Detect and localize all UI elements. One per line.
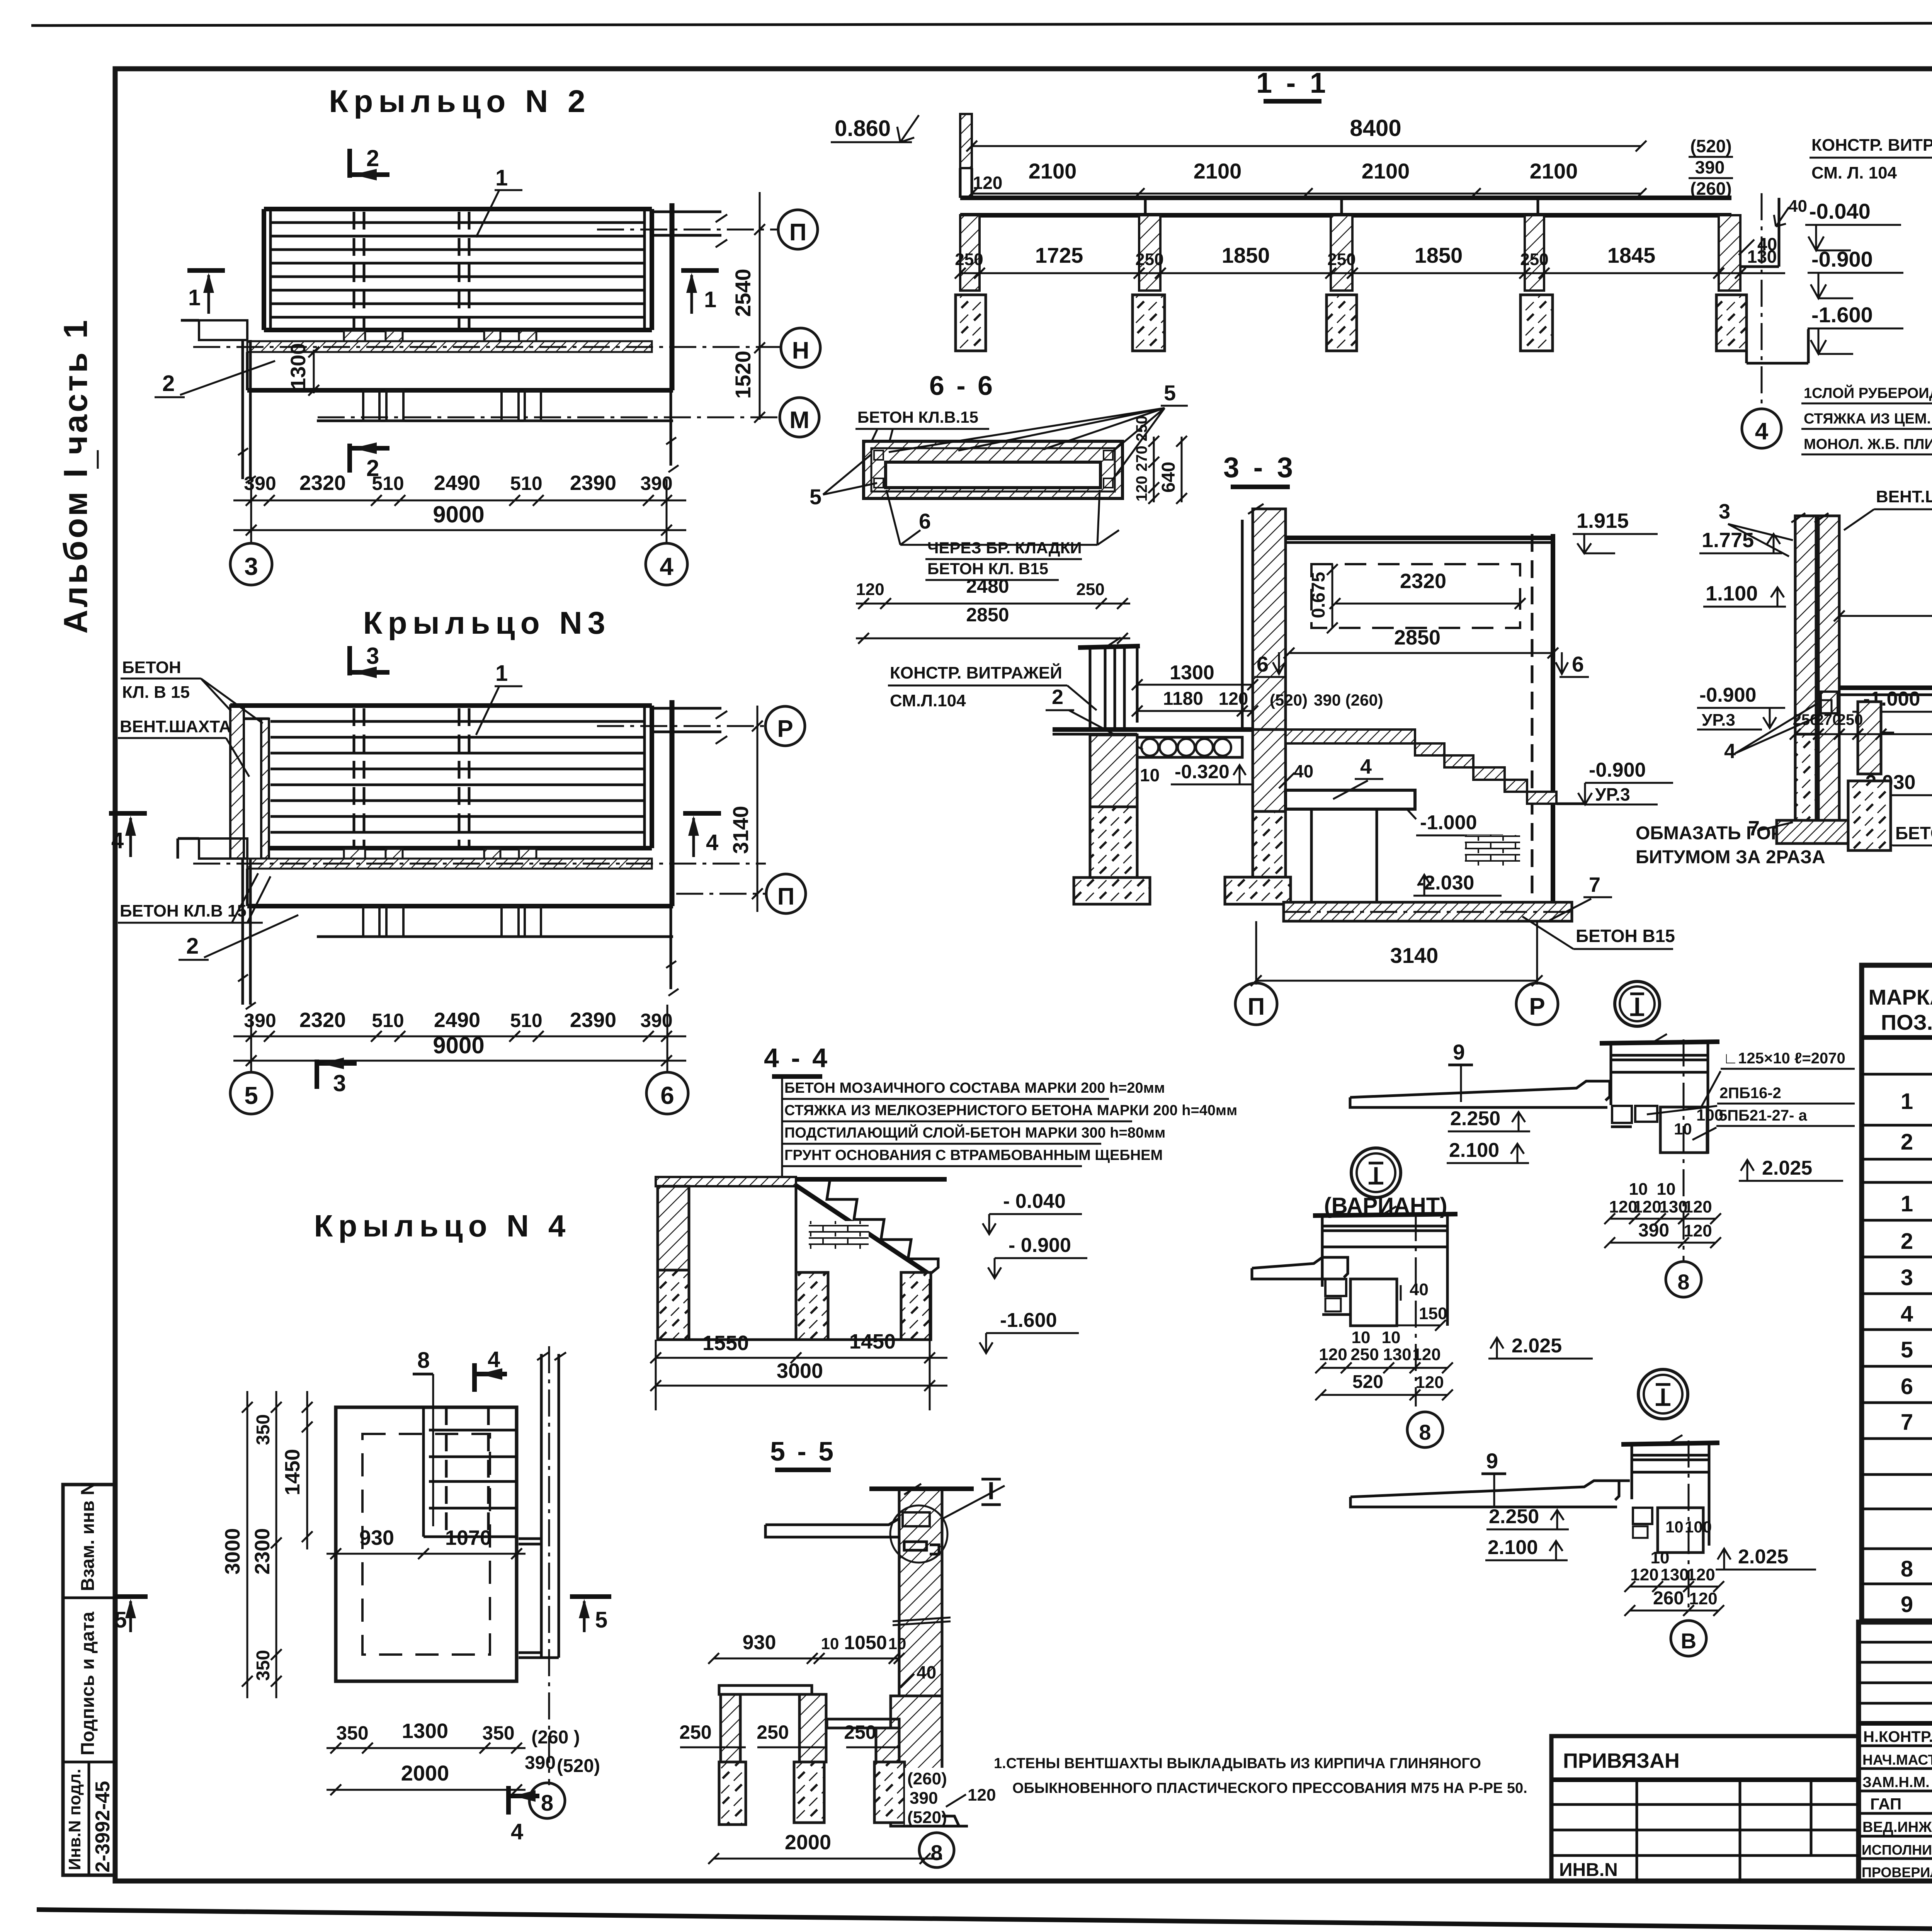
svg-text:4: 4: [488, 1347, 500, 1372]
svg-text:1520: 1520: [731, 350, 755, 399]
svg-text:10: 10: [1651, 1548, 1670, 1567]
svg-text:ЗАМ.Н.М.: ЗАМ.Н.М.: [1862, 1774, 1930, 1791]
right wall: [1551, 534, 1555, 902]
svg-text:2.250: 2.250: [1450, 1107, 1500, 1130]
svg-text:4: 4: [111, 828, 124, 853]
svg-text:- 0.040: - 0.040: [1003, 1190, 1066, 1213]
bottom slab: [1284, 902, 1572, 921]
spec table frame: [1862, 965, 1932, 1621]
svg-text:120: 120: [1687, 1565, 1715, 1584]
svg-text:350: 350: [253, 1414, 274, 1445]
svg-text:5: 5: [244, 1082, 258, 1109]
svg-text:НАЧ.МАСТ.: НАЧ.МАСТ.: [1862, 1752, 1932, 1768]
svg-text:(260 ): (260 ): [531, 1727, 580, 1748]
piers: [960, 215, 980, 291]
svg-text:4: 4: [1360, 755, 1372, 778]
shaft left wall: [1253, 509, 1286, 730]
landing slab: [246, 869, 249, 906]
central wall: [899, 1489, 942, 1696]
left wall lines: [241, 340, 244, 479]
svg-text:510: 510: [372, 473, 404, 494]
svg-text:1300: 1300: [402, 1719, 448, 1743]
svg-text:Н: Н: [792, 337, 810, 364]
title block outer: [1859, 1622, 1932, 1881]
svg-text:2.100: 2.100: [1488, 1536, 1538, 1559]
axis П circle (plan3): [766, 874, 806, 913]
svg-text:ИНВ.N: ИНВ.N: [1559, 1860, 1618, 1880]
svg-text:3: 3: [244, 553, 258, 580]
svg-text:390: 390: [1638, 1220, 1669, 1241]
svg-text:(520): (520): [1270, 691, 1308, 709]
axis circle 3: [230, 543, 272, 585]
dashed joint lines in treads: [353, 212, 355, 330]
svg-text:40: 40: [917, 1662, 936, 1682]
svg-text:ПОДСТИЛАЮЩИЙ СЛОЙ-БЕТОН МАРКИ: ПОДСТИЛАЮЩИЙ СЛОЙ-БЕТОН МАРКИ 300 h=80мм: [784, 1124, 1165, 1141]
svg-text:Р: Р: [777, 716, 793, 742]
svg-text:10: 10: [1382, 1328, 1401, 1347]
svg-text:10: 10: [1140, 765, 1160, 785]
svg-text:1300: 1300: [1170, 662, 1214, 684]
svg-text:120: 120: [968, 1786, 996, 1804]
svg-text:БЕТОН В15: БЕТОН В15: [1576, 926, 1675, 946]
wall assembly: [1321, 1214, 1324, 1287]
svg-text:2390: 2390: [570, 471, 616, 495]
svg-text:ПРИВЯЗАН: ПРИВЯЗАН: [1563, 1749, 1680, 1772]
svg-text:-0.900: -0.900: [1699, 684, 1756, 706]
svg-text:10: 10: [1629, 1180, 1648, 1199]
left entry step: [199, 838, 247, 859]
piers: [1858, 702, 1881, 774]
svg-text:БЕТОН КЛ.В 15: БЕТОН КЛ.В 15: [120, 901, 247, 920]
axis P circle: [765, 706, 805, 746]
svg-text:6: 6: [1901, 1374, 1913, 1399]
svg-text:- 0.900: - 0.900: [1009, 1234, 1071, 1257]
stair tread block: [269, 703, 652, 708]
svg-text:510: 510: [510, 1010, 542, 1031]
inner dashed contour: [362, 1434, 490, 1655]
blocks: [1633, 1508, 1652, 1524]
svg-text:3 - 3: 3 - 3: [1223, 451, 1296, 483]
svg-text:4: 4: [511, 1819, 523, 1844]
axis + circle 8: [1683, 1039, 1685, 1260]
svg-text:2.100: 2.100: [1449, 1139, 1499, 1162]
svg-text:УР.3: УР.3: [1702, 711, 1735, 730]
stair pocket: [422, 1407, 425, 1537]
dashed duct contour: [1311, 564, 1520, 628]
svg-text:2100: 2100: [1530, 159, 1578, 183]
svg-text:350: 350: [253, 1650, 274, 1681]
axis П circle: [1235, 983, 1277, 1025]
svg-text:2850: 2850: [1394, 626, 1440, 649]
6-6 box (vent duct section): [864, 441, 1122, 498]
left small rows: [1859, 1641, 1932, 1644]
svg-text:250: 250: [1837, 711, 1863, 728]
svg-text:1050: 1050: [844, 1632, 887, 1653]
vertical dim 2540/1520: [759, 192, 761, 420]
hollow core slab: [1137, 737, 1242, 757]
dim 2100 x4: [972, 193, 1641, 195]
axis circle 5: [230, 1072, 272, 1114]
svg-text:390: 390: [244, 473, 276, 494]
svg-text:КОНСТР. ВИТРАЖЕЙ: КОНСТР. ВИТРАЖЕЙ: [1811, 135, 1932, 155]
axis П line: [193, 863, 766, 865]
svg-text:1: 1: [495, 165, 508, 190]
landing slab (pos.2): [246, 352, 249, 390]
bottom plate: [1777, 820, 1878, 844]
svg-text:БЕТОН: БЕТОН: [122, 658, 181, 677]
svg-text:2320: 2320: [299, 471, 346, 495]
left street structure: [719, 1685, 812, 1694]
svg-text:1.775: 1.775: [1702, 529, 1754, 552]
row lines: [1862, 1073, 1932, 1076]
section mark 1 (left): [187, 268, 225, 273]
svg-text:3: 3: [1901, 1265, 1913, 1290]
svg-text:120: 120: [1219, 689, 1248, 709]
svg-text:5: 5: [810, 485, 821, 509]
brick patch: [1465, 835, 1520, 866]
svg-text:930: 930: [359, 1526, 394, 1549]
svg-text:ОБЫКНОВЕННОГО ПЛАСТИЧЕСКОГО ПР: ОБЫКНОВЕННОГО ПЛАСТИЧЕСКОГО ПРЕССОВАНИЯ …: [1012, 1780, 1527, 1796]
svg-text:250: 250: [1350, 1345, 1379, 1364]
dimension row: [233, 1036, 686, 1037]
svg-text:(260): (260): [907, 1769, 947, 1788]
shaft walls: [1795, 516, 1816, 734]
svg-text:1850: 1850: [1222, 243, 1270, 267]
axis + circle В: [1688, 1440, 1690, 1614]
svg-text:∟125×10 ℓ=2070: ∟125×10 ℓ=2070: [1723, 1050, 1845, 1067]
blocks: [1325, 1279, 1346, 1296]
cantilever slab: [765, 1519, 899, 1537]
svg-text:250: 250: [1327, 250, 1355, 269]
axis M circle: [780, 398, 819, 437]
svg-text:Крыльцо N 2: Крыльцо N 2: [329, 84, 591, 119]
svg-text:9: 9: [1486, 1449, 1498, 1473]
svg-text:4: 4: [1901, 1301, 1913, 1327]
paper top edge: [31, 22, 1932, 26]
plan outer boundary: [336, 1407, 517, 1681]
svg-text:2: 2: [162, 371, 175, 396]
right wall and corner: [670, 700, 672, 989]
svg-text:120: 120: [856, 580, 884, 599]
svg-text:8: 8: [417, 1348, 430, 1373]
svg-text:1СЛОЙ РУБЕРОИДА НА БИТУМНОЙ МА: 1СЛОЙ РУБЕРОИДА НА БИТУМНОЙ МАСТИКЕ: [1804, 384, 1932, 401]
svg-text:4: 4: [706, 830, 718, 855]
svg-text:9: 9: [1901, 1592, 1913, 1617]
svg-text:1845: 1845: [1607, 243, 1656, 267]
svg-text:9000: 9000: [433, 1032, 484, 1058]
svg-text:1180: 1180: [1163, 689, 1203, 709]
dim row: [1795, 733, 1932, 735]
svg-text:2000: 2000: [401, 1761, 449, 1785]
svg-text:-1.600: -1.600: [1000, 1309, 1057, 1332]
svg-text:2300: 2300: [251, 1528, 274, 1575]
svg-text:ГАП: ГАП: [1870, 1795, 1901, 1813]
svg-text:390: 390: [640, 473, 672, 494]
axis П circle: [778, 210, 818, 249]
svg-text:2000: 2000: [785, 1831, 831, 1854]
svg-text:-0.900: -0.900: [1811, 247, 1873, 271]
vertical dim 3000: [247, 1391, 248, 1698]
svg-text:1.СТЕНЫ ВЕНТШАХТЫ ВЫКЛАДЫВАТЬ: 1.СТЕНЫ ВЕНТШАХТЫ ВЫКЛАДЫВАТЬ ИЗ КИРПИЧА…: [994, 1755, 1481, 1772]
svg-text:390: 390: [1695, 157, 1725, 177]
svg-text:2.250: 2.250: [1489, 1505, 1539, 1528]
dimension row 390/2320/510/2490/510/2390/390: [233, 500, 686, 502]
lower wall row with piers: [317, 420, 673, 422]
svg-text:М: М: [789, 407, 810, 434]
svg-text:3140: 3140: [728, 806, 753, 854]
left wall: [658, 1186, 689, 1270]
svg-text:250: 250: [844, 1721, 876, 1743]
svg-text:390 (260): 390 (260): [1314, 691, 1383, 709]
svg-text:3000: 3000: [777, 1359, 823, 1383]
svg-text:40: 40: [1788, 197, 1807, 216]
node circle I: [1615, 981, 1660, 1026]
section mark 3 (top): [347, 646, 352, 675]
axis Р circle: [1516, 983, 1558, 1025]
svg-text:П: П: [777, 883, 795, 910]
brick patch: [809, 1221, 869, 1249]
svg-text:КОНСТР. ВИТРАЖЕЙ: КОНСТР. ВИТРАЖЕЙ: [890, 663, 1062, 682]
svg-text:2540: 2540: [731, 269, 755, 317]
svg-text:СМ.Л.104: СМ.Л.104: [890, 691, 966, 710]
main slab: [1839, 685, 1932, 690]
svg-text:2100: 2100: [1362, 159, 1410, 183]
svg-text:2: 2: [1901, 1229, 1913, 1254]
hatched wall strip (axis H): [247, 341, 652, 352]
svg-text:2490: 2490: [434, 1009, 480, 1032]
dim 930/1070: [327, 1553, 526, 1555]
vertical dim 1300: [313, 350, 315, 393]
dimension row 9000: [233, 1060, 686, 1062]
axis P line: [597, 725, 765, 727]
svg-text:10: 10: [888, 1634, 906, 1653]
left wall below: [1090, 735, 1137, 807]
svg-text:1: 1: [1901, 1191, 1913, 1216]
svg-text:120: 120: [1319, 1345, 1347, 1364]
svg-text:Крыльцо N 4: Крыльцо N 4: [314, 1209, 571, 1243]
svg-text:40: 40: [1757, 234, 1777, 254]
svg-text:2320: 2320: [299, 1009, 346, 1032]
svg-text:0.860: 0.860: [835, 116, 891, 141]
svg-text:9: 9: [1453, 1040, 1465, 1064]
svg-text:1550: 1550: [702, 1332, 749, 1355]
svg-text:-0.900: -0.900: [1589, 759, 1646, 781]
foot plate: [900, 1816, 968, 1826]
svg-text:2480: 2480: [966, 575, 1009, 597]
axis circle 8: [529, 1783, 565, 1818]
top slab: [1286, 536, 1553, 540]
svg-text:БЕТОН МОЗАИЧНОГО СОСТАВА МАРКИ: БЕТОН МОЗАИЧНОГО СОСТАВА МАРКИ 200 h=20м…: [784, 1080, 1165, 1096]
wall assembly: [1631, 1443, 1633, 1499]
slab from left: [1252, 1257, 1348, 1279]
svg-text:2: 2: [186, 934, 199, 959]
svg-text:260: 260: [1653, 1588, 1684, 1609]
vertical dims right of 6-6: [1153, 437, 1155, 502]
svg-text:(520): (520): [557, 1756, 600, 1776]
svg-text:Инв.N подл.: Инв.N подл.: [65, 1769, 84, 1870]
section mark 4 (right): [683, 811, 721, 816]
svg-text:250: 250: [1135, 250, 1163, 269]
svg-text:(520): (520): [1690, 136, 1731, 156]
right wall and corner: [670, 203, 672, 466]
dim 2000: [327, 1789, 526, 1791]
svg-text:510: 510: [372, 1010, 404, 1031]
svg-text:-1.000: -1.000: [1420, 811, 1477, 834]
svg-text:3140: 3140: [1390, 943, 1439, 968]
axis circle 6: [646, 1072, 688, 1114]
axis H circle: [781, 328, 820, 367]
floor slab top: [1053, 727, 1253, 732]
svg-text:Взам. инв N: Взам. инв N: [78, 1482, 98, 1591]
svg-text:2: 2: [1052, 685, 1063, 709]
svg-text:5: 5: [1901, 1337, 1913, 1362]
svg-text:МОНОЛ. Ж.Б. ПЛИТА БЕТОН КЛ.В 7: МОНОЛ. Ж.Б. ПЛИТА БЕТОН КЛ.В 7:5: [1804, 436, 1932, 452]
svg-text:ПРОВЕРИЛ: ПРОВЕРИЛ: [1862, 1864, 1932, 1880]
svg-text:120: 120: [1633, 1197, 1661, 1216]
svg-text:ВЕД.ИНЖ: ВЕД.ИНЖ: [1862, 1819, 1932, 1835]
header row: [1862, 1035, 1932, 1040]
svg-text:6: 6: [660, 1082, 674, 1109]
svg-text:2390: 2390: [570, 1009, 616, 1032]
svg-text:8: 8: [1901, 1556, 1913, 1582]
svg-text:2.025: 2.025: [1512, 1335, 1562, 1357]
svg-text:1725: 1725: [1035, 243, 1083, 267]
svg-text:МАРКА: МАРКА: [1868, 985, 1932, 1009]
svg-text:1: 1: [495, 661, 508, 686]
axis M line: [318, 417, 779, 418]
svg-text:6: 6: [1572, 652, 1584, 676]
axis 4 line and circle: [1761, 193, 1763, 408]
ground line with hatch: [656, 1177, 796, 1186]
svg-text:250: 250: [955, 250, 983, 269]
svg-text:2850: 2850: [966, 604, 1009, 626]
privyazan box: [1551, 1736, 1859, 1881]
axis extensions: [250, 1016, 252, 1073]
svg-text:10: 10: [1657, 1180, 1676, 1199]
section mark 5 (right): [570, 1594, 611, 1599]
svg-text:Р: Р: [1529, 993, 1545, 1020]
svg-text:3: 3: [1719, 500, 1730, 523]
svg-text:4: 4: [1724, 740, 1736, 763]
svg-text:0.675: 0.675: [1308, 572, 1329, 618]
svg-text:КЛ. В 15: КЛ. В 15: [122, 683, 190, 702]
svg-text:5ПБ21-27- а: 5ПБ21-27- а: [1719, 1107, 1807, 1124]
svg-text:390: 390: [244, 1010, 276, 1031]
svg-text:390: 390: [525, 1753, 556, 1773]
svg-text:2100: 2100: [1194, 159, 1242, 183]
stair tread block (pos.1 steps): [264, 207, 652, 211]
svg-text:Н.КОНТР.: Н.КОНТР.: [1863, 1728, 1932, 1745]
svg-text:6: 6: [919, 509, 931, 533]
svg-text:10: 10: [1665, 1518, 1684, 1536]
svg-text:БИТУМОМ ЗА 2РАЗА: БИТУМОМ ЗА 2РАЗА: [1636, 847, 1825, 867]
svg-text:ВЕНТ.ШАХТА: ВЕНТ.ШАХТА: [1876, 487, 1932, 506]
left margin stamp boxes: [63, 1485, 115, 1875]
svg-text:(260): (260): [1690, 179, 1731, 199]
wall assembly: [1610, 1043, 1612, 1105]
svg-text:Альбом I часть 1: Альбом I часть 1: [57, 318, 94, 634]
svg-text:2490: 2490: [434, 471, 480, 495]
svg-text:1: 1: [1901, 1089, 1913, 1114]
section mark 2 (top): [347, 149, 352, 178]
svg-text:250: 250: [1520, 250, 1548, 269]
svg-text:6 - 6: 6 - 6: [929, 371, 995, 401]
vertical dim 350/2300/350: [276, 1391, 277, 1698]
svg-text:-0.320: -0.320: [1175, 761, 1230, 782]
svg-text:250: 250: [1793, 711, 1819, 728]
svg-text:1.100: 1.100: [1706, 582, 1758, 605]
axis circle 4: [646, 543, 687, 585]
svg-text:8: 8: [1677, 1270, 1689, 1294]
svg-text:-1.600: -1.600: [1811, 303, 1873, 327]
axis + circle 8: [1415, 1214, 1417, 1406]
svg-text:2: 2: [1901, 1129, 1913, 1155]
dim 8400: [972, 145, 1641, 147]
svg-text:5: 5: [595, 1607, 607, 1633]
svg-text:640: 640: [1158, 462, 1179, 493]
stairs: [796, 1185, 930, 1274]
section mark 3 (bottom): [315, 1060, 319, 1089]
foundations: [1848, 781, 1891, 850]
svg-text:(520): (520): [907, 1808, 947, 1827]
svg-text:1300: 1300: [287, 343, 310, 389]
columns under stairs: [796, 1272, 828, 1340]
(260)/390/(520): [905, 1768, 996, 1830]
svg-text:8: 8: [1419, 1420, 1431, 1444]
svg-text:Крыльцо N3: Крыльцо N3: [363, 605, 611, 641]
svg-text:ГРУНТ ОСНОВАНИЯ С ВТРАМБОВАНН: ГРУНТ ОСНОВАНИЯ С ВТРАМБОВАННЫМ ЩЕБНЕМ: [784, 1147, 1163, 1163]
svg-text:250: 250: [679, 1721, 711, 1743]
platform slab: [1286, 790, 1415, 809]
dims bottom 350/1300/350: [327, 1747, 526, 1749]
svg-text:7: 7: [1748, 817, 1760, 840]
section mark 4 (left): [109, 811, 147, 816]
svg-text:40: 40: [1410, 1280, 1429, 1299]
svg-text:2100: 2100: [1029, 159, 1077, 183]
section mark 4 (bottom): [506, 1786, 511, 1815]
svg-text:П: П: [1248, 993, 1265, 1020]
slab band: [960, 196, 1731, 200]
svg-text:ВЕНТ.ШАХТА: ВЕНТ.ШАХТА: [120, 717, 231, 736]
svg-text:7: 7: [1901, 1410, 1913, 1435]
svg-text:2320: 2320: [1400, 570, 1446, 593]
svg-text:2.025: 2.025: [1738, 1546, 1788, 1568]
svg-text:40: 40: [1294, 761, 1313, 781]
axis H line: [193, 346, 781, 348]
svg-text:1: 1: [188, 285, 201, 310]
svg-text:5: 5: [1164, 381, 1176, 405]
svg-text:100: 100: [1696, 1106, 1723, 1124]
svg-text:2: 2: [366, 145, 379, 171]
right end wall: [1778, 198, 1781, 267]
right wall strip: [540, 1354, 543, 1658]
svg-text:1.915: 1.915: [1577, 509, 1629, 532]
svg-text:1450: 1450: [281, 1449, 304, 1495]
svg-text:СТЯЖКА ИЗ ЦЕМ. ПЕСЧ. Р-РА: СТЯЖКА ИЗ ЦЕМ. ПЕСЧ. Р-РА: [1804, 411, 1932, 427]
dashed joint lines: [353, 708, 355, 848]
section mark 2 (bottom): [347, 444, 352, 473]
svg-text:8400: 8400: [1350, 115, 1401, 141]
vent shaft walls (top-left of plan): [230, 706, 244, 859]
svg-text:1450: 1450: [849, 1330, 896, 1353]
svg-text:130: 130: [1660, 1565, 1689, 1584]
cantilever slab: [1350, 1081, 1610, 1107]
svg-text:БЕТОН В15: БЕТОН В15: [1895, 823, 1932, 843]
svg-text:ЧЕРЕЗ БР. КЛАДКИ: ЧЕРЕЗ БР. КЛАДКИ: [927, 539, 1082, 557]
svg-text:1 - 1: 1 - 1: [1256, 67, 1329, 99]
axis circle 8: [919, 1833, 954, 1867]
junction blocks (pos.4): [1821, 692, 1838, 713]
